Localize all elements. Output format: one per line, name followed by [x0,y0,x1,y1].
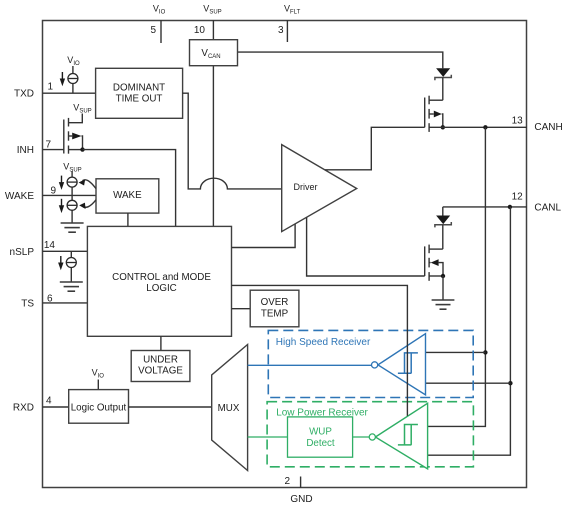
block OVER TEMP [250,290,299,327]
wire CANL line [443,206,527,208]
svg-text:13: 13 [512,115,524,126]
svg-text:CANH: CANH [534,122,562,133]
svg-text:VIO: VIO [67,55,80,67]
wire logic output to MUX [129,406,212,408]
wire TS to control logic [43,302,88,304]
transistor Q3 (INH high-side switch) [64,118,83,154]
svg-text:Logic Output: Logic Output [71,403,127,414]
wire control logic to under voltage [160,336,162,350]
svg-text:UNDER: UNDER [143,355,178,366]
dashed box Low Power Receiver [267,402,473,467]
current direction arrow at I4 [58,256,63,270]
svg-text:CONTROL and MODE: CONTROL and MODE [112,272,211,283]
svg-text:14: 14 [44,240,56,251]
svg-text:VIO: VIO [92,368,105,380]
wire WAKE pin to WAKE block [43,194,97,196]
wire Q2 source to ground [442,276,444,300]
wire INH to Q3 gate [43,149,64,151]
regulator VCAN box [190,40,238,66]
diode D1 (CANH) [435,68,451,100]
junction dot INH node [80,147,84,151]
svg-text:4: 4 [46,396,52,407]
pin 2 GND stub [300,477,302,489]
wire WUP detect to comparator bubble [353,436,370,438]
curved arrow WAKE block to I2 [79,179,96,188]
block DOMINANT TIME OUT [96,68,183,118]
svg-text:5: 5 [150,25,156,36]
dashed box High Speed Receiver [268,330,473,397]
svg-text:OVER: OVER [261,297,289,308]
block WUP Detect [288,417,353,457]
svg-text:12: 12 [512,192,524,203]
wire CANH line [429,126,527,128]
hysteresis symbol U2 [398,425,418,445]
wire VCAN output to CANH diode [238,52,443,68]
svg-text:VSUP: VSUP [73,103,91,115]
svg-text:Detect: Detect [306,438,335,449]
ground G2 [432,300,455,309]
curved arrow WAKE block to I3 [79,200,96,209]
pin 3 VFLT stub [278,4,301,43]
transistor Q2 (CANL low side) [425,245,443,281]
wire CANL sense line down to low power receiver [428,207,511,455]
junction dot Q1 source to CANH [441,125,445,129]
current source I4 on nSLP [66,251,76,282]
hysteresis symbol U1 [398,353,418,373]
block WAKE [96,179,159,213]
VSUP label for Q3 [69,103,92,123]
svg-text:7: 7 [46,139,52,150]
comparator U1 high speed receiver [372,334,426,395]
current source I1 on TXD (VIO pull-up) [67,55,80,93]
wire control logic enable to low power receiver [232,285,408,416]
MUX trapezoid [212,345,248,471]
svg-text:Driver: Driver [294,182,318,192]
outer chip boundary box [43,21,527,488]
ground G1 below wake sources [61,223,84,232]
current source I2 (wake pull-up) [67,177,77,187]
svg-text:TEMP: TEMP [261,309,289,320]
wire high speed receiver input CANL [426,382,511,384]
wire INH node to control logic [83,150,176,227]
current source I3 (wake pull-down) [67,200,77,210]
svg-text:GND: GND [290,494,312,505]
transistor Q1 (CANH high side) [425,96,443,132]
svg-text:2: 2 [284,476,290,487]
current direction arrow at I3 [59,199,64,213]
svg-text:WAKE: WAKE [113,190,142,201]
svg-text:VOLTAGE: VOLTAGE [138,366,183,377]
svg-text:RXD: RXD [13,403,34,414]
junction dot CANH sense tap [483,125,487,129]
current direction arrow at I1 [60,72,65,86]
ground G3 below I4 [60,282,83,291]
svg-text:10: 10 [194,25,206,36]
svg-text:3: 3 [278,25,284,36]
wire high speed receiver output to MUX [248,364,372,366]
block CONTROL and MODE LOGIC [87,226,231,336]
comparator U2 low power receiver [369,403,427,469]
VIO label above logic output [92,368,105,390]
svg-text:TXD: TXD [14,89,34,100]
wire TXD to dominant timeout [43,92,96,94]
block Logic Output [69,390,129,424]
wire high speed receiver input CANH [426,351,486,353]
wire control logic to over temp [232,308,251,310]
wire driver to CANL gate [307,217,425,276]
svg-text:nSLP: nSLP [10,247,35,258]
svg-text:INH: INH [17,145,34,156]
svg-text:VFLT: VFLT [284,4,301,16]
svg-text:High Speed Receiver: High Speed Receiver [276,337,371,348]
pin 5 VIO stub [150,4,165,44]
junction dot high speed receiver minus tap [508,381,512,385]
wire nSLP to control logic [43,250,88,252]
wire RXD to logic output [43,406,69,408]
svg-text:WUP: WUP [309,427,332,438]
wire MUX to WUP detect [248,436,288,438]
wire CANH sense line down to low power receiver [428,127,486,426]
svg-text:DOMINANT: DOMINANT [113,83,165,94]
svg-text:VSUP: VSUP [203,4,221,16]
op-amp Driver [282,145,357,232]
junction dot Q2 source node [441,274,445,278]
svg-text:CANL: CANL [534,202,561,213]
svg-text:TS: TS [21,299,34,310]
wire VSUP through I2 I3 to ground [71,171,73,223]
svg-text:VIO: VIO [153,4,166,16]
diode D2 (CANL) [435,207,451,249]
pin 10 VSUP stub and VSUP rail [194,4,222,227]
junction dot CANL sense tap [508,205,512,209]
wire driver to CANH gate [325,127,425,170]
driver enable wire from control logic [232,224,296,248]
wire WAKE block to control logic [127,213,129,226]
junction dot high speed receiver plus tap [483,350,487,354]
block UNDER VOLTAGE [131,351,190,382]
svg-text:TIME OUT: TIME OUT [116,94,163,105]
wire dominant timeout to driver input with hop over VSUP rail [182,93,281,189]
svg-text:1: 1 [48,82,54,93]
svg-text:LOGIC: LOGIC [146,283,177,294]
svg-text:MUX: MUX [218,403,240,414]
svg-text:WAKE: WAKE [5,191,34,202]
current direction arrow at I2 [59,176,64,190]
